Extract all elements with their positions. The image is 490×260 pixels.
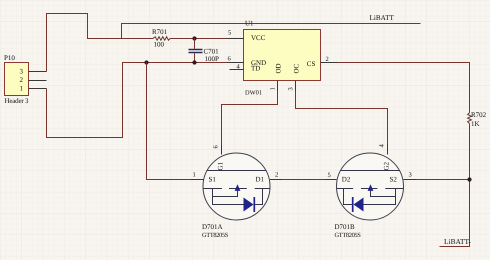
svg-text:5: 5: [228, 30, 231, 37]
gate bar chord: [340, 170, 399, 172]
svg-text:2: 2: [275, 172, 278, 179]
capacitor C701: [189, 39, 220, 64]
pin 1 OD: [277, 81, 279, 92]
substrate link with arrow: [213, 191, 238, 197]
channel segments: [203, 188, 222, 190]
pin 6 GND: [228, 62, 244, 64]
svg-text:D1: D1: [256, 176, 265, 184]
transistor D701B (right MOSFET): [325, 144, 417, 240]
wire node A to R701: [122, 38, 154, 40]
svg-text:100P: 100P: [205, 55, 220, 63]
svg-text:OD: OD: [275, 63, 283, 73]
svg-text:2: 2: [20, 76, 24, 84]
wire from P10 pin 3 up and over to node A: [47, 14, 122, 72]
svg-text:Header 3: Header 3: [5, 97, 30, 105]
wire R701 to U1 pin 5: [170, 38, 244, 40]
svg-text:1: 1: [193, 172, 196, 179]
node B junction on VCC wire: [192, 36, 196, 40]
svg-text:U1: U1: [245, 20, 254, 28]
wire U1 OC pin 3 to gate of D701B: [296, 81, 388, 155]
svg-text:D701B: D701B: [335, 223, 356, 231]
node D junction C701 bottom: [192, 60, 196, 64]
svg-text:OC: OC: [293, 63, 301, 73]
wire D1 to D2: [270, 179, 337, 181]
resistor R702: [468, 113, 472, 124]
svg-text:LiBATT: LiBATT: [370, 14, 395, 22]
pin 1 S1 lead: [191, 179, 204, 181]
wire U1 CS pin 2 right and down to R702: [321, 63, 470, 113]
svg-text:GTT8205S: GTT8205S: [335, 232, 362, 239]
wire GND rail from P10 pin 1 loop to U1 pin 6: [47, 63, 244, 138]
gate bar chord: [207, 170, 266, 172]
resistor R701: [153, 37, 170, 41]
svg-text:CS: CS: [307, 60, 316, 68]
svg-text:D701A: D701A: [202, 223, 223, 231]
node E junction S2 wire and R702 leg: [467, 177, 471, 181]
IC U1 DW01 battery protection: [228, 20, 338, 97]
svg-text:5: 5: [328, 172, 331, 179]
body diode pointing left: [352, 197, 354, 212]
wire R702 down to LiBATT-: [440, 124, 470, 247]
transistor D701A (left MOSFET): [191, 145, 283, 240]
wire U1 OD pin 1 to gate of D701A: [222, 81, 278, 155]
pin 2 D1 lead: [270, 179, 282, 181]
wire node C down to mosfet S1: [147, 63, 204, 180]
svg-text:1: 1: [20, 85, 24, 93]
drain-side drop to cathode: [344, 189, 353, 205]
svg-text:G1: G1: [217, 161, 225, 170]
pin 4 TD: [230, 69, 244, 71]
svg-text:S1: S1: [209, 176, 217, 184]
pin 6 gate lead: [221, 145, 223, 155]
svg-text:D2: D2: [342, 176, 351, 184]
pin 2 CS: [321, 62, 338, 64]
svg-text:1: 1: [270, 87, 277, 90]
svg-text:2: 2: [326, 56, 329, 63]
svg-text:1K: 1K: [471, 120, 480, 128]
svg-text:3: 3: [288, 87, 295, 90]
pin 4 gate lead: [387, 145, 389, 155]
connector P10: [4, 54, 47, 105]
svg-text:R702: R702: [471, 111, 487, 119]
svg-text:GTT8205S: GTT8205S: [202, 232, 229, 239]
svg-text:VCC: VCC: [251, 34, 266, 42]
pin 2 of P10: [29, 80, 47, 82]
pin 5 D2 lead: [325, 179, 337, 181]
node C junction GND rail to S1: [144, 60, 148, 64]
svg-text:100: 100: [154, 41, 165, 49]
svg-text:TD: TD: [251, 65, 260, 73]
svg-text:3: 3: [409, 172, 412, 179]
body diode: [244, 198, 254, 212]
pin 3 S2 lead: [404, 179, 417, 181]
wire S2 to R702 node: [404, 179, 470, 181]
svg-text:DW01: DW01: [245, 90, 262, 97]
channel segments: [336, 188, 353, 190]
svg-text:LiBATT-: LiBATT-: [444, 237, 471, 246]
svg-text:R701: R701: [152, 28, 168, 36]
svg-text:G2: G2: [383, 161, 391, 170]
svg-text:3: 3: [20, 68, 24, 76]
pin 1 of P10: [29, 88, 47, 90]
pin 3 of P10: [29, 71, 47, 73]
svg-text:P10: P10: [4, 54, 15, 62]
substrate link with arrow: [371, 191, 396, 197]
svg-text:S2: S2: [390, 176, 398, 184]
pin 5 VCC: [228, 38, 244, 40]
wire LiBATT branch from node A: [122, 24, 421, 39]
pin 3 OC: [295, 81, 297, 92]
source-side drop to anode rail: [213, 189, 244, 205]
